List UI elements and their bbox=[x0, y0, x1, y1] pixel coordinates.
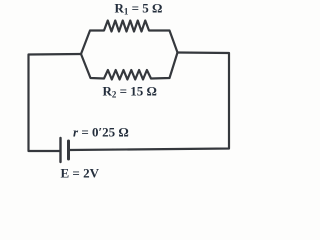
svg-text:r = 0′25 Ω: r = 0′25 Ω bbox=[73, 125, 129, 140]
svg-text:E = 2V: E = 2V bbox=[61, 165, 100, 180]
svg-text:R1 = 5 Ω: R1 = 5 Ω bbox=[115, 1, 163, 17]
svg-text:R2 = 15 Ω: R2 = 15 Ω bbox=[103, 84, 157, 100]
